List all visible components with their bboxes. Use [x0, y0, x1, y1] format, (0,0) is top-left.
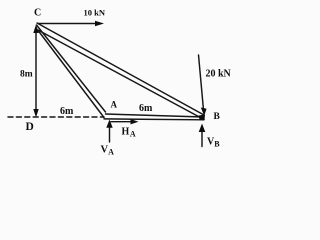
- arrowhead 8m bottom: [33, 109, 38, 118]
- svg-text:VA: VA: [101, 144, 115, 156]
- member CB (double line): [37, 23, 204, 120]
- load arrow 10 kN shaft: [38, 23, 97, 25]
- svg-text:20 kN: 20 kN: [206, 69, 232, 80]
- arrowhead VB: [199, 124, 206, 133]
- dashed ground line through D: [8, 116, 104, 118]
- arrowhead 10 kN: [95, 21, 104, 27]
- svg-text:8m: 8m: [20, 70, 33, 80]
- svg-text:D: D: [26, 121, 34, 133]
- joint blob at B: [199, 115, 206, 121]
- arrowhead 20 kN bottom: [201, 108, 207, 116]
- reaction arrow VB shaft: [201, 131, 203, 147]
- svg-text:C: C: [34, 8, 41, 19]
- reaction arrow VA shaft: [109, 126, 111, 142]
- svg-text:HA: HA: [122, 127, 136, 139]
- svg-text:B: B: [214, 112, 221, 122]
- reaction arrow HA shaft: [111, 121, 132, 123]
- member CA (double line): [37, 25, 106, 118]
- svg-text:A: A: [111, 100, 118, 110]
- arrowhead 8m top: [33, 25, 38, 34]
- svg-text:6m: 6m: [60, 106, 74, 117]
- arrowhead HA: [131, 119, 139, 124]
- dimension line 8m (vertical): [35, 28, 37, 112]
- arrowhead VA: [106, 120, 112, 128]
- svg-text:VB: VB: [207, 137, 220, 149]
- member AB (double line): [104, 114, 204, 120]
- svg-text:6m: 6m: [139, 103, 153, 114]
- svg-text:10 kN: 10 kN: [84, 8, 106, 18]
- load arrow 20 kN shaft: [199, 55, 204, 110]
